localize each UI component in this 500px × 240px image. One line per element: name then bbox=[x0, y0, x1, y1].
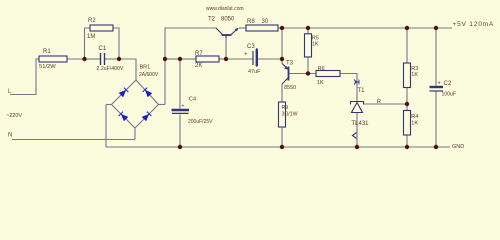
svg-text:TL431: TL431 bbox=[352, 121, 370, 127]
node ground TL431 bbox=[355, 145, 359, 149]
wire bridge left vertex to ground rail bbox=[105, 105, 107, 148]
wire node B to bridge top vertex bbox=[119, 59, 136, 80]
wire R3 to node H bbox=[406, 88, 408, 111]
wire T2 emitter to R8 bbox=[239, 27, 246, 29]
diode BR1 top-left bbox=[119, 88, 153, 122]
capacitor C1 bbox=[101, 53, 105, 65]
resistor R4 bbox=[404, 111, 411, 136]
node rail R5 bbox=[306, 26, 310, 30]
TL431 anode arrow mark bbox=[353, 133, 357, 139]
svg-text:C2: C2 bbox=[444, 81, 452, 87]
wire R9 to ground rail bbox=[281, 127, 283, 147]
resistor R7 bbox=[196, 56, 219, 62]
svg-text:C1: C1 bbox=[99, 46, 107, 52]
regulator T1 TL431 triangle bbox=[352, 103, 363, 113]
wire node F to T3 emitter bbox=[281, 59, 283, 64]
wire node D to R7 bbox=[180, 58, 196, 60]
wire node F riser to top rail bbox=[281, 28, 283, 59]
node B (C1/R2/bridge AC) bbox=[117, 57, 121, 61]
svg-text:+5V 120mA: +5V 120mA bbox=[453, 21, 495, 28]
svg-text:GND: GND bbox=[452, 144, 464, 150]
node ground C2 bbox=[434, 145, 438, 149]
svg-text:BR1: BR1 bbox=[140, 65, 151, 71]
node F (C3/T3 emitter riser) bbox=[280, 57, 284, 61]
diode BR1 top-right bbox=[143, 88, 153, 98]
svg-text:R8: R8 bbox=[247, 19, 255, 25]
svg-text:2A/600V: 2A/600V bbox=[139, 72, 159, 78]
wire node A to C1 bbox=[85, 58, 101, 60]
wire R2 right leg bbox=[113, 28, 119, 59]
resistor R9 bbox=[279, 102, 286, 127]
svg-text:30: 30 bbox=[262, 19, 269, 25]
svg-text:R7: R7 bbox=[195, 51, 203, 57]
wire C2 bottom lead bbox=[435, 92, 437, 148]
svg-text:R1: R1 bbox=[43, 49, 51, 55]
svg-text:47uF: 47uF bbox=[248, 69, 261, 75]
node ground R4 bbox=[405, 145, 409, 149]
wire top rail riser bbox=[165, 28, 216, 59]
resistor R3 bbox=[404, 63, 411, 88]
node ground R9 bbox=[280, 145, 284, 149]
svg-text:T1: T1 bbox=[358, 88, 366, 94]
node ground C4 bbox=[178, 145, 182, 149]
wire N input bbox=[12, 139, 135, 141]
resistor R8 bbox=[246, 25, 278, 31]
wire R7 to node E bbox=[219, 58, 226, 60]
capacitor C4 bbox=[172, 110, 190, 113]
wire R3 riser from top rail bbox=[406, 28, 408, 63]
capacitor C2 bbox=[430, 87, 444, 91]
wire L input bbox=[10, 59, 39, 95]
wire R8 to +5V rail end bbox=[278, 27, 452, 29]
svg-text:2K: 2K bbox=[195, 63, 202, 69]
wire C1 to node B bbox=[105, 58, 120, 60]
bridge rectifier BR1 bbox=[106, 80, 165, 128]
wire C4 bottom lead bbox=[179, 115, 181, 148]
svg-text:1K: 1K bbox=[317, 80, 324, 86]
resistor R6 bbox=[316, 71, 340, 77]
wire node E to C3 bbox=[226, 58, 253, 60]
wire TL431 reference to node H bbox=[363, 103, 407, 105]
diode BR1 bottom-left bbox=[119, 112, 129, 122]
wire ground rail bbox=[106, 146, 450, 148]
resistor R1 bbox=[39, 56, 67, 62]
svg-text:51/2W: 51/2W bbox=[39, 64, 56, 70]
wire R2 left leg bbox=[85, 28, 91, 59]
wire C3 to node F bbox=[257, 58, 282, 60]
wire R6 to TL431 cathode bbox=[340, 74, 357, 102]
wire R5 bottom to node G bbox=[307, 57, 309, 74]
wire node C to node D bbox=[165, 58, 180, 60]
wire TL431 anode to ground rail bbox=[356, 113, 358, 148]
svg-text:2.2uF/400V: 2.2uF/400V bbox=[97, 66, 124, 72]
svg-text:+: + bbox=[182, 104, 185, 110]
wire bridge right vertex riser to node C bbox=[164, 59, 166, 105]
resistor R2 bbox=[90, 25, 113, 31]
svg-text:R4: R4 bbox=[411, 114, 418, 120]
wire R5 riser from top rail bbox=[307, 28, 309, 34]
svg-text:N: N bbox=[8, 133, 12, 139]
wire T3 base to node G bbox=[289, 73, 317, 75]
node G (R5/R6/T3 base) bbox=[306, 71, 310, 75]
wire T2 base riser bbox=[225, 36, 227, 59]
svg-text:T2: T2 bbox=[208, 17, 216, 23]
svg-text:www.dianlut.com: www.dianlut.com bbox=[206, 6, 244, 12]
node rail C2 bbox=[434, 26, 438, 30]
transistor T2 bbox=[216, 28, 239, 38]
wire bridge bottom vertex to N bbox=[134, 128, 136, 140]
svg-text:R6: R6 bbox=[318, 66, 325, 72]
transistor T3 bbox=[282, 64, 289, 85]
node C (bridge + / rail riser) bbox=[163, 57, 167, 61]
svg-text:T3: T3 bbox=[286, 61, 294, 67]
wire T3 collector to R9 bbox=[281, 84, 283, 102]
regulator T1 TL431 cathode bar bbox=[351, 102, 364, 105]
resistor R5 bbox=[305, 34, 312, 57]
svg-text:R: R bbox=[377, 99, 381, 105]
diode BR1 bottom-right bbox=[142, 112, 152, 122]
wire C4 top lead bbox=[179, 59, 181, 109]
TL431 pin K mark bbox=[354, 80, 359, 85]
wire R1 to node A bbox=[67, 58, 85, 60]
wire R4 to ground rail bbox=[406, 135, 408, 147]
node H (R3/R4/TL431 ref) bbox=[405, 102, 409, 106]
svg-text:8550: 8550 bbox=[284, 85, 296, 91]
svg-text:R9: R9 bbox=[282, 105, 289, 111]
svg-text:R2: R2 bbox=[88, 18, 96, 24]
svg-text:1K: 1K bbox=[312, 42, 319, 48]
svg-text:C4: C4 bbox=[189, 97, 196, 103]
svg-text:3Ω/1W: 3Ω/1W bbox=[282, 112, 298, 118]
wire C2 top lead bbox=[435, 28, 437, 86]
svg-text:8050: 8050 bbox=[221, 17, 235, 23]
svg-text:100uF: 100uF bbox=[442, 92, 457, 98]
svg-text:+: + bbox=[244, 52, 247, 58]
node A (R1/R2/C1) bbox=[82, 57, 86, 61]
svg-text:C3: C3 bbox=[247, 44, 255, 50]
node rail R3 bbox=[405, 26, 409, 30]
node rail R8 bbox=[280, 26, 284, 30]
svg-text:1M: 1M bbox=[87, 34, 95, 40]
node D (C4 top) bbox=[178, 57, 182, 61]
svg-text:1K: 1K bbox=[411, 72, 418, 78]
node E (R7/T2 base/C3) bbox=[224, 57, 228, 61]
svg-text:200uF/25V: 200uF/25V bbox=[188, 119, 213, 125]
svg-text:1K: 1K bbox=[411, 120, 418, 126]
svg-text:+: + bbox=[438, 81, 441, 87]
svg-text:~220V: ~220V bbox=[6, 113, 22, 119]
capacitor C3 bbox=[253, 50, 257, 66]
